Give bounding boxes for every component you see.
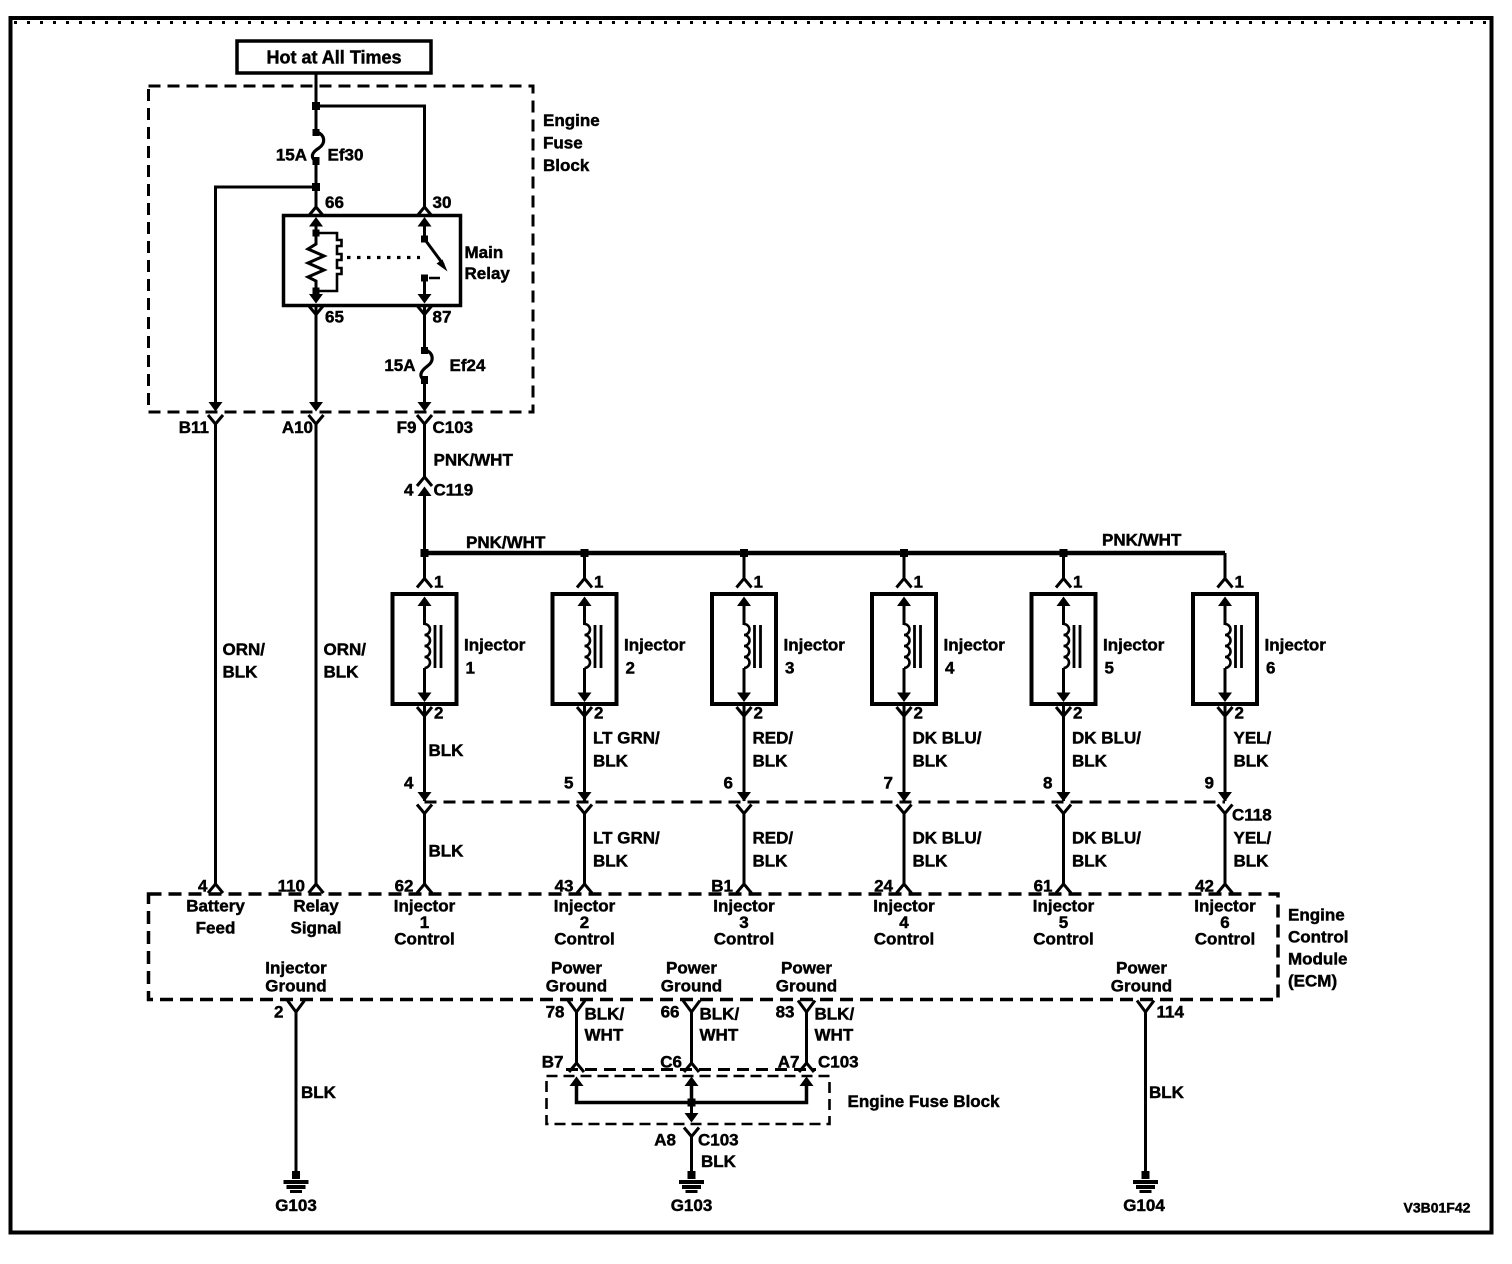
label: Power Ground (pin 66) — [661, 959, 722, 996]
connector C118 cavity 6 — [724, 774, 752, 814]
svg-text:Power: Power — [1116, 959, 1167, 978]
label: Power Ground (pin 78) — [546, 959, 607, 996]
label: Power Ground (pin 83) — [776, 959, 837, 996]
connector F9 — [397, 402, 473, 437]
wire: injector 2 pin 2 to C118 (LT GRN//BLK ) — [583, 704, 586, 801]
svg-text:Relay: Relay — [465, 264, 511, 283]
svg-text:4: 4 — [404, 481, 414, 500]
label: wire colour below C118 injector 5 — [1072, 829, 1141, 871]
svg-text:BLK: BLK — [1149, 1083, 1185, 1102]
label: wire colour above C118 injector 6 — [1234, 729, 1272, 771]
label: PNK/WHT — [434, 451, 514, 470]
svg-text:9: 9 — [1205, 774, 1214, 793]
label: wire colour above C118 injector 1 — [429, 741, 465, 760]
svg-text:Feed: Feed — [196, 919, 236, 938]
wire: PNK/WHT injector feed bus — [425, 551, 1226, 556]
svg-text:Engine: Engine — [543, 111, 600, 130]
svg-text:Injector: Injector — [265, 959, 327, 978]
svg-text:PNK/WHT: PNK/WHT — [1102, 531, 1182, 550]
wire: ECM pin 78 to B7 — [575, 1012, 578, 1064]
label: BLK/WHT (pin 78) — [585, 1005, 625, 1045]
svg-text:1: 1 — [914, 573, 923, 592]
wire: injector 6 pin 2 to C118 (YEL//BLK ) — [1224, 704, 1227, 801]
svg-text:Control: Control — [1288, 928, 1348, 947]
svg-text:C118: C118 — [1232, 806, 1272, 825]
svg-text:30: 30 — [433, 193, 452, 212]
wire: C118 to ECM pin 61 — [1062, 814, 1065, 885]
svg-text:66: 66 — [325, 193, 344, 212]
wire: C118 to ECM pin 24 — [903, 814, 906, 885]
label: 15A Ef24 — [384, 356, 486, 375]
svg-text:BLK/: BLK/ — [585, 1005, 625, 1024]
svg-text:1: 1 — [594, 573, 603, 592]
label: wire colour above C118 injector 4 — [913, 729, 982, 771]
svg-text:Injector: Injector — [1103, 636, 1165, 655]
svg-text:1: 1 — [754, 573, 763, 592]
svg-text:Injector: Injector — [624, 636, 686, 655]
wire: ECM pin 66 to C6 — [690, 1012, 693, 1064]
svg-text:BLK: BLK — [913, 852, 949, 871]
label: Injector 3 Control — [713, 897, 775, 949]
svg-text:83: 83 — [776, 1003, 795, 1022]
svg-text:Control: Control — [714, 930, 774, 949]
ECM pin 4 (Battery Feed) — [198, 877, 223, 896]
wire: Hot at All Times feed down — [315, 74, 318, 130]
injector 6 pin 2 — [1218, 704, 1244, 723]
svg-text:Control: Control — [554, 930, 614, 949]
connector A10 — [282, 402, 324, 437]
svg-text:PNK/WHT: PNK/WHT — [466, 533, 546, 552]
injector 5 pin 1 — [1056, 573, 1082, 592]
junction: bus tap injector 2 — [581, 549, 589, 557]
svg-text:Signal: Signal — [290, 919, 341, 938]
injector 1 pin 1 — [417, 573, 443, 592]
label: Injector Ground — [265, 959, 327, 996]
junction: ground bus — [688, 1099, 696, 1107]
svg-text:(ECM): (ECM) — [1288, 972, 1337, 991]
svg-text:78: 78 — [546, 1003, 565, 1022]
main relay — [284, 216, 461, 306]
svg-text:6: 6 — [724, 774, 733, 793]
relay pin 66 — [309, 193, 344, 233]
wire: injector 5 pin 2 to C118 (DK BLU//BLK ) — [1062, 704, 1065, 801]
svg-text:2: 2 — [274, 1003, 283, 1022]
injector 3 — [712, 594, 776, 704]
wire: A10 to ECM pin 110 (ORN/BLK) — [315, 424, 318, 884]
svg-text:Injector: Injector — [464, 636, 526, 655]
label: Engine Fuse Block — [543, 111, 600, 175]
injector 5 — [1032, 594, 1096, 704]
ground G103 (center) — [671, 1171, 713, 1215]
label: wire colour below C118 injector 4 — [913, 829, 982, 871]
relay actuation dotted link — [347, 256, 420, 259]
svg-text:Power: Power — [666, 959, 717, 978]
fuse Ef24 15A — [421, 347, 432, 384]
injector 4 pin 2 — [897, 704, 923, 723]
svg-text:114: 114 — [1157, 1003, 1185, 1022]
ground G103 (left) — [275, 1171, 317, 1215]
svg-text:G104: G104 — [1123, 1196, 1165, 1215]
svg-text:DK BLU/: DK BLU/ — [1072, 729, 1141, 748]
junction: bus tap injector 3 — [740, 549, 748, 557]
ECM pin 66 (Power Ground) — [661, 1001, 700, 1022]
svg-text:110: 110 — [278, 877, 305, 896]
svg-text:Control: Control — [1195, 930, 1255, 949]
svg-text:8: 8 — [1043, 774, 1052, 793]
svg-text:Battery: Battery — [186, 897, 245, 916]
label: BLK/WHT (pin 66) — [700, 1005, 740, 1045]
svg-text:BLK/: BLK/ — [700, 1005, 740, 1024]
svg-text:V3B01F42: V3B01F42 — [1404, 1200, 1471, 1216]
svg-text:F9: F9 — [397, 418, 417, 437]
svg-text:5: 5 — [564, 774, 573, 793]
injector 6 — [1193, 594, 1257, 704]
label: drawing number V3B01F42 — [1404, 1200, 1471, 1216]
svg-text:Injector: Injector — [944, 636, 1006, 655]
connector C6 — [660, 1053, 699, 1073]
relay pin 65 — [309, 294, 344, 327]
label: Relay Signal — [290, 897, 341, 938]
connector B7 — [542, 1053, 584, 1073]
svg-text:1: 1 — [466, 659, 475, 678]
svg-text:Ground: Ground — [265, 977, 326, 996]
injector 3 pin 2 — [737, 704, 763, 723]
label: wire colour above C118 injector 5 — [1072, 729, 1141, 771]
svg-text:BLK: BLK — [753, 852, 789, 871]
svg-text:BLK: BLK — [223, 663, 259, 682]
wire: ECM pin 114 to G104 (BLK) — [1144, 1012, 1147, 1171]
ECM pin 78 (Power Ground) — [546, 1001, 585, 1022]
connector C118 cavity 7 — [884, 774, 912, 814]
label: wire colour below C118 injector 1 — [429, 842, 465, 861]
node: Hot at All Times supply — [237, 41, 431, 73]
engine control module boundary — [149, 894, 1279, 1000]
svg-text:Ef24: Ef24 — [450, 356, 486, 375]
label: wire colour below C118 injector 2 — [593, 829, 660, 871]
svg-text:Control: Control — [394, 930, 454, 949]
connector A7 C103 — [778, 1053, 859, 1073]
label: PNK/WHT (bus left) — [466, 533, 546, 552]
wire: fuse Ef24 to F9 — [423, 384, 426, 403]
wire: relay pin 87 to fuse Ef24 — [423, 306, 426, 349]
label: C118 — [1232, 806, 1272, 825]
svg-text:C103: C103 — [818, 1053, 859, 1072]
wire: bus drop to injector 4 pin 1 — [903, 553, 906, 579]
svg-text:Fuse: Fuse — [543, 134, 583, 153]
label: Power Ground (pin 114) — [1111, 959, 1172, 996]
label: wire colour below C118 injector 6 — [1234, 829, 1272, 871]
svg-text:1: 1 — [1235, 573, 1244, 592]
ECM pin B1 (Injector 3 Control) — [711, 877, 751, 896]
label: BLK (power ground right) — [1149, 1083, 1185, 1102]
wire: bus drop to injector 5 pin 1 — [1062, 553, 1065, 579]
wire: C118 to ECM pin 43 — [583, 814, 586, 885]
wire: injector 3 pin 2 to C118 (RED//BLK ) — [743, 704, 746, 801]
svg-text:BLK: BLK — [593, 752, 629, 771]
connector C118 cavity 4 — [404, 774, 432, 814]
svg-text:2: 2 — [626, 659, 635, 678]
ECM pin 61 (Injector 5 Control) — [1034, 877, 1071, 896]
svg-text:7: 7 — [884, 774, 893, 793]
wire: B7 ground branch — [570, 1077, 692, 1103]
svg-text:DK BLU/: DK BLU/ — [1072, 829, 1141, 848]
svg-text:Control: Control — [874, 930, 934, 949]
junction: bus tap injector 1 — [421, 549, 429, 557]
wire: ECM pin 83 to A7 — [805, 1012, 808, 1064]
label: wire colour above C118 injector 3 — [753, 729, 794, 771]
svg-text:WHT: WHT — [815, 1026, 854, 1045]
svg-text:Relay: Relay — [293, 897, 339, 916]
svg-text:WHT: WHT — [585, 1026, 624, 1045]
connector A8 C103 — [654, 1103, 738, 1150]
svg-text:Module: Module — [1288, 950, 1348, 969]
engine fuse block (top) boundary — [149, 86, 534, 412]
label: Battery Feed — [186, 897, 245, 938]
ECM pin 83 (Power Ground) — [776, 1001, 815, 1022]
svg-text:C119: C119 — [434, 481, 474, 500]
label: Injector 4 — [944, 636, 1006, 678]
svg-text:BLK: BLK — [1234, 852, 1270, 871]
svg-text:Ground: Ground — [776, 977, 837, 996]
svg-text:15A: 15A — [276, 146, 307, 165]
svg-text:DK BLU/: DK BLU/ — [913, 729, 982, 748]
svg-text:BLK/: BLK/ — [815, 1005, 855, 1024]
label: Injector 2 — [624, 636, 686, 678]
svg-text:A10: A10 — [282, 418, 313, 437]
svg-text:2: 2 — [1235, 704, 1244, 723]
svg-text:B11: B11 — [179, 418, 209, 437]
wire: C118 to ECM pin 42 — [1224, 814, 1227, 885]
svg-text:Ef30: Ef30 — [328, 146, 364, 165]
svg-text:RED/: RED/ — [753, 829, 794, 848]
wire: C118 to ECM pin 62 — [423, 814, 426, 885]
label: Injector 5 Control — [1033, 897, 1095, 949]
injector 4 — [872, 594, 936, 704]
svg-text:65: 65 — [325, 308, 344, 327]
wire: bus drop to injector 3 pin 1 — [743, 553, 746, 579]
svg-text:B7: B7 — [542, 1053, 564, 1072]
ECM pin 2 (Injector Ground) — [274, 1001, 304, 1022]
junction: bus tap injector 4 — [900, 549, 908, 557]
fuse Ef30 15A — [312, 129, 323, 165]
wire: A8 to G103 (BLK) — [690, 1137, 693, 1172]
svg-text:BLK: BLK — [301, 1083, 337, 1102]
svg-text:DK BLU/: DK BLU/ — [913, 829, 982, 848]
ECM pin 43 (Injector 2 Control) — [555, 877, 592, 896]
svg-text:BLK: BLK — [429, 842, 465, 861]
svg-text:BLK: BLK — [324, 663, 360, 682]
svg-text:Injector: Injector — [784, 636, 846, 655]
relay switch — [421, 236, 448, 295]
svg-text:5: 5 — [1105, 659, 1114, 678]
injector 1 — [393, 594, 457, 704]
svg-text:ORN/: ORN/ — [223, 640, 266, 659]
svg-text:66: 66 — [661, 1003, 680, 1022]
svg-text:BLK: BLK — [753, 752, 789, 771]
svg-text:LT GRN/: LT GRN/ — [593, 829, 660, 848]
connector C119 pin 4 — [404, 477, 473, 500]
injector 2 pin 2 — [577, 704, 603, 723]
label: Engine Control Module (ECM) — [1288, 906, 1348, 991]
ECM pin 62 (Injector 1 Control) — [395, 877, 432, 896]
svg-text:1: 1 — [1073, 573, 1082, 592]
svg-text:Main: Main — [465, 243, 504, 262]
label: BLK/WHT (pin 83) — [815, 1005, 855, 1045]
wire: injector 4 pin 2 to C118 (DK BLU//BLK ) — [903, 704, 906, 801]
wire: relay pin 65 to A10 — [315, 306, 318, 403]
svg-text:3: 3 — [785, 659, 794, 678]
junction: battery feed tap — [312, 183, 320, 191]
label: Injector 5 — [1103, 636, 1165, 678]
svg-text:2: 2 — [1073, 704, 1082, 723]
injector 3 pin 1 — [737, 573, 763, 592]
wire: battery feed to B11 — [216, 187, 317, 403]
label: Engine Fuse Block (bottom) — [848, 1092, 1001, 1111]
svg-text:Ground: Ground — [546, 977, 607, 996]
svg-text:BLK: BLK — [701, 1152, 737, 1171]
svg-text:WHT: WHT — [700, 1026, 739, 1045]
svg-text:2: 2 — [434, 704, 443, 723]
svg-text:15A: 15A — [384, 356, 415, 375]
junction: bus tap injector 5 — [1060, 549, 1068, 557]
label: ORN/BLK (relay signal) — [324, 640, 367, 682]
svg-text:YEL/: YEL/ — [1234, 729, 1272, 748]
label: wire colour below C118 injector 3 — [753, 829, 794, 871]
ECM pin 114 (Power Ground) — [1137, 1001, 1184, 1022]
wire: B11 to ECM pin 4 (ORN/BLK) — [214, 424, 217, 884]
ECM pin 42 (Injector 6 Control) — [1195, 877, 1232, 896]
svg-text:6: 6 — [1266, 659, 1275, 678]
label: ORN/BLK (battery feed) — [223, 640, 266, 682]
wire: ECM pin 2 to G103 (BLK) — [295, 1012, 298, 1171]
injector 1 pin 2 — [417, 704, 443, 723]
label: Injector 1 — [464, 636, 526, 678]
injector 2 — [553, 594, 617, 704]
svg-text:4: 4 — [198, 877, 208, 896]
injector 4 pin 1 — [897, 573, 923, 592]
ground G104 — [1123, 1171, 1165, 1215]
svg-text:Engine Fuse Block: Engine Fuse Block — [848, 1092, 1001, 1111]
svg-text:C103: C103 — [698, 1131, 739, 1150]
svg-text:RED/: RED/ — [753, 729, 794, 748]
connector C103 harness line — [566, 1068, 816, 1071]
wire: A7 ground branch — [692, 1077, 814, 1103]
connector C118 harness line — [425, 801, 1226, 804]
svg-text:LT GRN/: LT GRN/ — [593, 729, 660, 748]
svg-text:BLK: BLK — [1234, 752, 1270, 771]
svg-text:Power: Power — [781, 959, 832, 978]
wire: C119 to injector feed bus — [423, 495, 426, 553]
svg-text:BLK: BLK — [429, 741, 465, 760]
label: Injector 6 — [1265, 636, 1327, 678]
wire: feed to relay pin 30 — [316, 106, 425, 207]
wire: injector 1 pin 2 to C118 (BLK ) — [423, 704, 426, 801]
label: 15A Ef30 — [276, 146, 364, 165]
relay pin 87 — [417, 294, 451, 327]
svg-text:4: 4 — [945, 659, 955, 678]
label: Injector 4 Control — [873, 897, 935, 949]
svg-text:ORN/: ORN/ — [324, 640, 367, 659]
svg-text:BLK: BLK — [1072, 852, 1108, 871]
svg-text:Ground: Ground — [661, 977, 722, 996]
svg-text:Engine: Engine — [1288, 906, 1345, 925]
label: BLK (A8 ground) — [701, 1152, 737, 1171]
junction: feed split to relay pin 30 — [312, 102, 320, 110]
svg-text:G103: G103 — [275, 1196, 317, 1215]
svg-text:A8: A8 — [654, 1131, 676, 1150]
svg-text:BLK: BLK — [1072, 752, 1108, 771]
wire: fuse Ef30 to relay pin 66 — [315, 165, 318, 207]
label: BLK (injector ground) — [301, 1083, 337, 1102]
label: PNK/WHT (bus right) — [1102, 531, 1182, 550]
relay coil — [308, 230, 342, 295]
svg-text:Injector: Injector — [1265, 636, 1327, 655]
svg-text:PNK/WHT: PNK/WHT — [434, 451, 514, 470]
label: Injector 1 Control — [394, 897, 456, 949]
svg-text:C103: C103 — [433, 418, 474, 437]
connector C118 cavity 5 — [564, 774, 592, 814]
svg-text:Ground: Ground — [1111, 977, 1172, 996]
label: wire colour above C118 injector 2 — [593, 729, 660, 771]
label: Injector 3 — [784, 636, 846, 678]
svg-text:BLK: BLK — [593, 852, 629, 871]
engine fuse block (bottom) boundary — [547, 1076, 830, 1124]
svg-text:Block: Block — [543, 156, 590, 175]
ECM pin 110 (Relay Signal) — [278, 877, 324, 896]
wire: F9 to connector C119 (PNK/WHT) — [423, 424, 426, 477]
injector 6 pin 1 — [1218, 573, 1244, 592]
connector B11 — [179, 402, 223, 437]
wire: C6 ground branch — [685, 1077, 699, 1103]
connector C118 cavity 8 — [1043, 774, 1071, 814]
wire: C118 to ECM pin B1 — [743, 814, 746, 885]
wire: bus drop to injector 6 pin 1 — [1224, 553, 1227, 579]
ECM pin 24 (Injector 4 Control) — [874, 877, 911, 896]
svg-text:87: 87 — [433, 308, 452, 327]
svg-text:G103: G103 — [671, 1196, 713, 1215]
wire: bus drop to injector 1 pin 1 — [423, 553, 426, 579]
injector 2 pin 1 — [577, 573, 603, 592]
relay pin 30 — [417, 193, 451, 239]
svg-text:YEL/: YEL/ — [1234, 829, 1272, 848]
svg-text:1: 1 — [434, 573, 443, 592]
injector 5 pin 2 — [1056, 704, 1082, 723]
connector C118 cavity 9 — [1205, 774, 1233, 814]
svg-text:2: 2 — [754, 704, 763, 723]
svg-text:4: 4 — [404, 774, 414, 793]
svg-text:Hot at All Times: Hot at All Times — [266, 48, 401, 68]
label: Main Relay — [465, 243, 511, 283]
svg-text:2: 2 — [594, 704, 603, 723]
svg-text:Power: Power — [551, 959, 602, 978]
svg-text:Control: Control — [1033, 930, 1093, 949]
label: Injector 6 Control — [1194, 897, 1256, 949]
wire: bus drop to injector 2 pin 1 — [583, 553, 586, 579]
svg-text:2: 2 — [914, 704, 923, 723]
svg-text:BLK: BLK — [913, 752, 949, 771]
label: Injector 2 Control — [554, 897, 616, 949]
